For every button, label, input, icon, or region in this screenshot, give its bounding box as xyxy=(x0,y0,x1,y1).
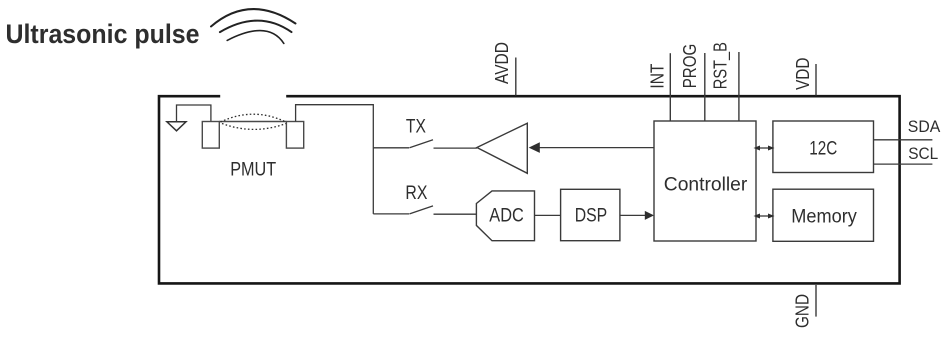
svg-text:Ultrasonic pulse: Ultrasonic pulse xyxy=(6,19,200,49)
wire: RX branch stub xyxy=(373,213,409,215)
wire: controller to 12C (double arrow) xyxy=(757,147,771,149)
svg-text:ADC: ADC xyxy=(489,204,524,226)
wire: TX branch stub xyxy=(373,147,409,149)
DSP block xyxy=(561,189,620,240)
PMUT right anchor block xyxy=(286,122,303,149)
svg-text:DSP: DSP xyxy=(575,204,608,226)
pin PROG (line into controller) xyxy=(704,53,706,121)
svg-text:Controller: Controller xyxy=(664,174,748,196)
ADC block (hexagon) xyxy=(476,191,534,241)
svg-text:12C: 12C xyxy=(809,137,837,159)
pin GND (line) xyxy=(815,285,817,317)
memory block xyxy=(773,189,874,241)
PMUT membrane line xyxy=(219,121,286,123)
ultrasonic wave arc outer xyxy=(211,9,296,26)
wire: controller to amplifier (arrow left) xyxy=(539,147,654,149)
wire: ADC to DSP xyxy=(535,214,561,216)
pin RST_B (line into controller) xyxy=(738,52,740,121)
svg-text:GND: GND xyxy=(793,294,813,328)
PMUT left anchor block xyxy=(202,122,219,149)
svg-text:PROG: PROG xyxy=(680,44,700,89)
svg-text:SCL: SCL xyxy=(908,145,938,163)
svg-text:VDD: VDD xyxy=(793,58,813,91)
svg-text:TX: TX xyxy=(406,115,426,137)
wire: TX switch to amplifier xyxy=(434,147,477,149)
pin SDA (line) xyxy=(874,139,933,141)
PMUT membrane flex (dotted lower arc) xyxy=(222,124,286,130)
pin SCL (line) xyxy=(874,163,933,165)
svg-text:INT: INT xyxy=(648,64,668,89)
svg-text:PMUT: PMUT xyxy=(230,159,276,181)
controller block U1 xyxy=(654,121,756,241)
chip boundary box (top edge has opening for PMUT port) xyxy=(159,96,900,283)
wire: controller to memory (double arrow) xyxy=(757,215,771,217)
12C block xyxy=(773,121,874,173)
svg-text:RST_B: RST_B xyxy=(710,42,731,89)
switch RX (open blade) xyxy=(410,206,434,214)
pin AVDD (line) xyxy=(515,58,517,96)
wire: PMUT to TX/RX switches xyxy=(296,105,374,214)
ground symbol (PMUT bottom electrode) xyxy=(167,122,186,131)
svg-text:Memory: Memory xyxy=(791,206,857,228)
svg-text:SDA: SDA xyxy=(908,118,941,136)
wire: DSP to controller (arrow right) xyxy=(620,214,646,216)
pin VDD (line) xyxy=(815,64,817,96)
svg-text:AVDD: AVDD xyxy=(492,42,512,84)
switch TX (open blade) xyxy=(410,140,434,148)
wire: ground to left electrode xyxy=(177,105,211,122)
PMUT membrane flex (dotted upper arc) xyxy=(221,114,287,122)
svg-text:RX: RX xyxy=(405,182,427,204)
wire: RX switch to ADC xyxy=(434,213,477,215)
pin INT (line into controller) xyxy=(669,53,671,121)
ultrasonic wave arc middle xyxy=(220,21,292,33)
ultrasonic wave arc inner xyxy=(227,31,284,44)
op-amp TX driver (triangle, points left) xyxy=(477,123,527,173)
